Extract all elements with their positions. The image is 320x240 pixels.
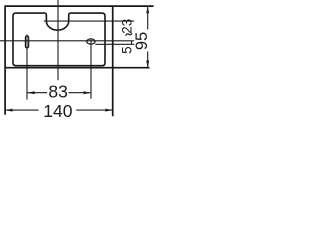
right oval hole (87, 39, 95, 44)
svg-text:5: 5 (119, 46, 134, 54)
dimension 83 line (27, 91, 90, 94)
svg-text:95: 95 (133, 32, 151, 50)
inner bracket outline with top notch (13, 13, 105, 66)
outer plate rectangle (5, 6, 154, 116)
connector tick between extension lines (131, 41, 133, 45)
horizontal centre line through holes (0, 40, 134, 42)
svg-text:23: 23 (119, 19, 134, 34)
dimension 95 line (146, 6, 149, 68)
slot extension line down to 83 dimension (26, 35, 28, 100)
hole extension line down to 83 dimension (90, 39, 92, 99)
vertical centre line through notch (57, 0, 59, 80)
notch semicircular dip (45, 13, 70, 30)
notch chord extension line (44, 20, 134, 22)
dimension 140 line (5, 109, 112, 112)
hole-bottom extension line (95, 43, 134, 45)
svg-text:83: 83 (48, 81, 67, 101)
left slot hole (25, 36, 28, 48)
svg-text:140: 140 (43, 101, 72, 121)
